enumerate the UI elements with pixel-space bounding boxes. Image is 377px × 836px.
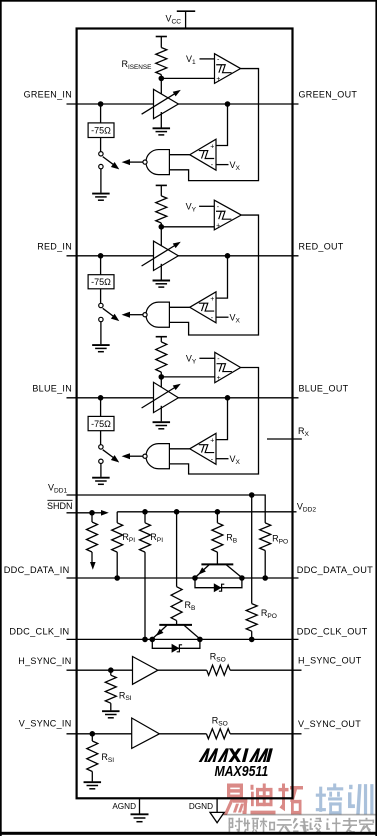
wire resistor to junction RED — [160, 223, 162, 227]
variable attenuator amplifier BLUE — [154, 382, 179, 412]
wire rail to RB1 — [216, 512, 218, 523]
watermark character 和 — [260, 818, 275, 832]
ground attenuator GREEN — [153, 127, 171, 129]
switch control arrow BLUE — [122, 453, 130, 459]
switch contact bottom GREEN — [99, 164, 103, 168]
wire V_SYNC_IN line — [67, 733, 132, 735]
resistor RB1 — [212, 523, 223, 552]
svg-text:BLUE_OUT: BLUE_OUT — [299, 383, 349, 393]
svg-text:GREEN_IN: GREEN_IN — [24, 90, 72, 100]
diode D1 schottky — [214, 583, 222, 592]
wire RSO to V_SYNC_OUT — [230, 733, 301, 735]
watermark character 拓 — [279, 784, 304, 815]
wire resistor to down arrow — [91, 552, 93, 563]
wire SHDN junction down to resistor — [91, 513, 93, 522]
wire DDC_CLK line — [67, 638, 299, 640]
wire NAND top input to VX comparator RED — [169, 306, 189, 308]
watermark character 迪 — [251, 784, 276, 815]
svg-text:+: + — [210, 296, 214, 303]
watermark character 射 — [229, 818, 243, 834]
svg-text:AGND: AGND — [112, 802, 136, 811]
wire switch to ground RED — [100, 322, 102, 345]
wire H_SYNC_IN line — [67, 669, 133, 671]
node Q1 emitter junction — [192, 575, 198, 581]
node Q2 collector junction — [197, 637, 203, 643]
watermark character 家 — [359, 818, 374, 833]
wire VX - input to VX label BLUE — [216, 458, 229, 460]
wire VDD2 rail — [117, 511, 296, 513]
wire switch to ground BLUE — [100, 464, 102, 477]
node junction sense GREEN — [159, 76, 165, 82]
ground switch RED — [92, 344, 110, 346]
wire buffer to RSO V_SYNC — [159, 733, 206, 735]
ground RSI H_SYNC — [102, 710, 120, 712]
attenuator adjust arrow BLUE — [142, 386, 178, 408]
resistor current-sense BLUE — [156, 342, 167, 372]
wire VDD1 to RPO1 top — [252, 495, 266, 523]
wire VX - input to VX label RED — [216, 316, 229, 318]
node rail RPI2 junction — [142, 509, 148, 515]
power rail T-bar BLUE channel — [156, 336, 167, 338]
wire VX - input to VX label GREEN — [216, 164, 229, 166]
variable attenuator amplifier GREEN — [154, 89, 179, 118]
label MAX9511 — [214, 763, 268, 779]
svg-text:DDC_CLK_IN: DDC_CLK_IN — [9, 627, 69, 637]
node rail RB1 junction — [215, 509, 221, 515]
op-amp comparator VX BLUE — [190, 433, 216, 464]
wire VY to - input — [199, 205, 214, 207]
power rail T-bar GREEN channel — [156, 36, 167, 38]
resistor RPO1 — [260, 523, 271, 551]
resistor RPI2 — [140, 523, 151, 552]
attenuator adjust arrow RED — [142, 244, 178, 266]
node RPI1 data junction — [114, 575, 120, 581]
node junction sense RED — [159, 224, 165, 230]
svg-text:DGND: DGND — [189, 802, 213, 811]
svg-text:H_SYNC_OUT: H_SYNC_OUT — [298, 656, 362, 666]
svg-text:+: + — [217, 375, 221, 382]
wire attenuator to ground BLUE — [160, 406, 162, 422]
node junction output sense GREEN — [225, 101, 231, 107]
wire rail to RPI1 — [116, 512, 118, 523]
wire attenuator to ground GREEN — [160, 112, 162, 128]
wire junction into attenuator BLUE — [160, 377, 162, 394]
wire rail to RB2 drop — [176, 512, 178, 587]
wire resistor to junction BLUE — [160, 372, 162, 377]
node H_SYNC RSI junction — [108, 667, 114, 673]
switch arm GREEN — [103, 157, 115, 166]
svg-text:BLUE_IN: BLUE_IN — [32, 383, 72, 393]
wire junction to comparator + input GREEN — [161, 77, 215, 79]
watermark character 频 — [243, 818, 258, 833]
wire comparator output feedback loop BLUE — [169, 368, 258, 475]
NAND gate BLUE — [146, 444, 169, 469]
resistor -75ohm RED — [88, 275, 114, 289]
wire main to -75ohm box RED — [100, 256, 102, 275]
svg-text:GREEN_OUT: GREEN_OUT — [299, 90, 358, 100]
svg-text:+: + — [210, 437, 214, 444]
resistor current-sense RED — [156, 196, 167, 223]
wire diode D2 bypass path — [152, 639, 200, 648]
ground switch BLUE — [92, 477, 110, 479]
resistor RPO2 — [246, 604, 257, 632]
wire RSI to ground V_SYNC — [91, 772, 93, 782]
wire V1 to - input — [200, 58, 215, 60]
wire junction to RSI H_SYNC — [110, 670, 112, 675]
wire DDC_DATA line — [67, 577, 299, 579]
MAXIM logo — [197, 747, 199, 749]
watermark character 线 — [293, 818, 309, 833]
svg-text:RED_IN: RED_IN — [37, 241, 72, 251]
node junction -75ohm branch RED — [98, 253, 104, 259]
wire buffer to RSO H_SYNC — [158, 669, 207, 671]
switch contact top BLUE — [99, 445, 103, 449]
svg-text:DDC_DATA_IN: DDC_DATA_IN — [4, 565, 70, 575]
op-amp comparator V1 GREEN — [215, 54, 241, 84]
wire RSO to H_SYNC_OUT — [230, 669, 301, 671]
node junction -75ohm branch BLUE — [98, 395, 104, 401]
switch contact bottom BLUE — [99, 459, 103, 463]
wire attenuator to ground RED — [160, 264, 162, 280]
wire -75ohm to switch BLUE — [100, 431, 102, 445]
wire RPO1 to DDC_DATA line — [264, 551, 266, 579]
power VCC symbol — [185, 11, 187, 28]
SHDN control arrow — [92, 512, 102, 514]
wire switch to ground GREEN — [100, 169, 102, 193]
NAND gate RED — [146, 302, 169, 327]
watermark character 计 — [326, 818, 340, 833]
wire junction into attenuator RED — [160, 227, 162, 252]
svg-text:DDC_CLK_OUT: DDC_CLK_OUT — [297, 627, 368, 637]
wire RB2 to transistor Q2 base — [176, 621, 178, 625]
wire resistor to junction GREEN — [160, 75, 162, 79]
switch arm BLUE — [103, 450, 115, 459]
wire RPI1 to DDC_DATA line — [116, 552, 118, 578]
resistor SHDN pulldown — [87, 522, 98, 552]
wire T-bar to resistor BLUE — [160, 337, 162, 342]
svg-text:V_SYNC_OUT: V_SYNC_OUT — [298, 719, 361, 729]
op-amp comparator VY BLUE — [215, 352, 241, 382]
wire RED_IN to RED_OUT main video line — [67, 255, 299, 257]
buffer amplifier V_SYNC — [132, 718, 160, 748]
resistor RSO V_SYNC — [206, 729, 230, 739]
watermark character 天 — [277, 819, 292, 834]
svg-text:+: + — [216, 76, 220, 83]
node RPO2 clk junction — [249, 637, 255, 643]
watermark line under logo text — [222, 814, 376, 816]
resistor current-sense GREEN — [156, 48, 167, 75]
NAND gate GREEN — [146, 150, 169, 175]
wire main to -75ohm box GREEN — [100, 104, 102, 123]
wire VX + input to main line RED — [216, 256, 228, 298]
wire rail to RPI2 — [144, 512, 146, 523]
node Q2 emitter junction — [150, 637, 156, 643]
svg-text:SHDN: SHDN — [47, 501, 73, 511]
image border frame — [0, 0, 377, 2]
wire RSI to ground H_SYNC — [110, 703, 112, 710]
watermark character 设 — [310, 818, 322, 833]
attenuator adjust arrow GREEN — [142, 92, 178, 114]
resistor RB2 — [171, 587, 182, 621]
wire VY to - input — [199, 357, 214, 359]
svg-text:-75Ω: -75Ω — [91, 277, 111, 287]
diode D2 schottky — [172, 644, 180, 653]
wire VDD1 pin line — [67, 494, 252, 496]
node rail RB2 junction — [174, 509, 180, 515]
wire main to -75ohm box BLUE — [100, 398, 102, 417]
resistor RSI V_SYNC — [87, 741, 98, 772]
switch control arrow GREEN — [122, 159, 130, 165]
wire comparator output feedback loop GREEN — [169, 69, 258, 181]
svg-text:+: + — [210, 143, 214, 150]
wire T-bar to resistor RED — [160, 185, 162, 196]
ground switch GREEN — [92, 193, 110, 195]
wire NAND top input to VX comparator BLUE — [169, 448, 189, 450]
resistor RPI1 — [112, 523, 123, 552]
svg-text:-75Ω: -75Ω — [91, 126, 111, 136]
watermark character 训 — [348, 784, 373, 814]
switch contact bottom RED — [99, 317, 103, 321]
wire comparator output feedback loop RED — [169, 215, 258, 335]
node junction -75ohm branch GREEN — [98, 101, 104, 107]
SHDN down arrow at DDC_DATA line — [90, 562, 96, 570]
resistor RSO H_SYNC — [207, 665, 230, 675]
op-amp comparator VX RED — [190, 292, 216, 323]
variable attenuator amplifier RED — [154, 241, 179, 270]
svg-text:RED_OUT: RED_OUT — [299, 241, 344, 251]
op-amp comparator VY RED — [214, 200, 241, 230]
watermark character 培 — [316, 784, 343, 815]
wire NAND top input to VX comparator GREEN — [169, 154, 189, 156]
node V_SYNC RSI junction — [90, 731, 96, 737]
wire junction to comparator + input RED — [161, 226, 215, 228]
wire diode D1 bypass path — [195, 578, 242, 588]
svg-text:+: + — [216, 222, 220, 229]
ground attenuator BLUE — [153, 421, 171, 423]
wire T-bar to resistor GREEN — [160, 37, 162, 48]
node SHDN junction — [89, 510, 95, 516]
wire RB1 to transistor Q1 base — [216, 552, 218, 564]
svg-text:V_SYNC_IN: V_SYNC_IN — [19, 718, 72, 728]
wire RPI2 to DDC_CLK line — [144, 552, 146, 639]
node Q1 collector junction — [239, 575, 245, 581]
svg-text:DDC_DATA_OUT: DDC_DATA_OUT — [297, 565, 373, 575]
buffer amplifier H_SYNC — [133, 657, 158, 685]
node RPO1 data junction — [262, 575, 268, 581]
resistor -75ohm GREEN — [88, 123, 114, 138]
wire VX + input to main line BLUE — [216, 398, 228, 440]
node junction output sense RED — [225, 253, 231, 259]
resistor RSI H_SYNC — [105, 675, 116, 703]
node junction output sense BLUE — [225, 395, 231, 401]
wire junction to comparator + input BLUE — [161, 376, 216, 378]
svg-text:-75Ω: -75Ω — [91, 419, 111, 429]
switch contact top RED — [99, 303, 103, 307]
transistor Q1 DDC_DATA level shifter — [201, 563, 233, 565]
wire VDD1 to RPO2 drop — [251, 495, 253, 604]
wire RPO2 to DDC_CLK line — [251, 631, 253, 639]
wire SHDN pin — [67, 512, 93, 514]
transistor Q2 DDC_CLK level shifter — [159, 624, 192, 626]
op-amp comparator VX GREEN — [190, 139, 216, 170]
node junction sense BLUE — [159, 374, 165, 380]
switch control arrow RED — [122, 312, 130, 318]
wire -75ohm to switch GREEN — [100, 138, 102, 152]
wire GREEN_IN to GREEN_OUT main video line — [67, 103, 299, 105]
wire BLUE_IN to BLUE_OUT main video line — [67, 397, 299, 399]
wire RX pin stub — [267, 438, 302, 440]
watermark character 专 — [342, 818, 357, 833]
switch contact top GREEN — [99, 152, 103, 156]
wire -75ohm to switch RED — [100, 289, 102, 304]
switch arm RED — [103, 308, 115, 317]
svg-text:H_SYNC_IN: H_SYNC_IN — [18, 656, 71, 666]
wire junction into attenuator GREEN — [160, 78, 162, 100]
resistor -75ohm BLUE — [88, 416, 114, 430]
ground RSI V_SYNC — [84, 781, 102, 783]
node RPI2 clk junction — [142, 637, 148, 643]
wire junction to RSI V_SYNC — [91, 734, 93, 741]
DGND pin — [216, 798, 218, 812]
watermark character 易 — [224, 784, 248, 816]
IC boundary box MAX9511 — [77, 29, 293, 799]
wire VX + input to main line GREEN — [216, 104, 228, 146]
ground attenuator RED — [153, 280, 171, 282]
svg-text:MAX9511: MAX9511 — [214, 763, 268, 779]
node VDD1 junction — [249, 492, 255, 498]
AGND pin — [139, 798, 141, 813]
power rail T-bar RED channel — [156, 184, 167, 186]
